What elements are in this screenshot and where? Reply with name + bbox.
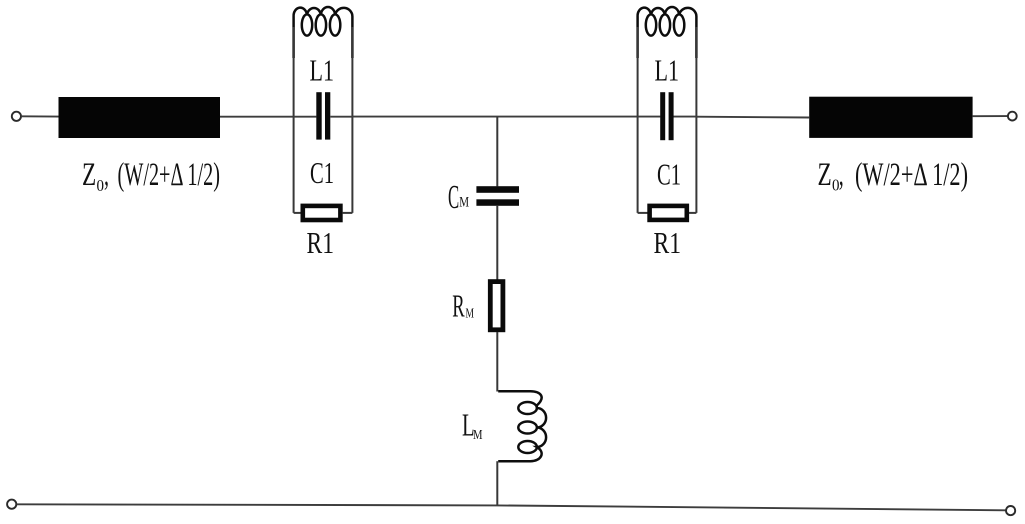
capacitor C1 (left): right plate — [325, 92, 330, 139]
svg-text:(W/2+Δ 1/2): (W/2+Δ 1/2) — [855, 157, 968, 193]
resistor RM (vertical) — [490, 282, 503, 330]
wire: right tank right vertical — [695, 27, 697, 213]
svg-text:C1: C1 — [310, 155, 334, 190]
terminal: bottom-right port — [1006, 506, 1015, 515]
terminal: top-left port — [12, 112, 21, 121]
wire: left tank to centre node to right tank — [352, 116, 637, 118]
svg-text:,: , — [839, 157, 844, 193]
svg-text:M: M — [459, 195, 469, 211]
resistor R1 (left) — [303, 206, 341, 220]
wire: out of right C1 right plate — [673, 116, 696, 118]
capacitor C1 (right): right plate — [669, 92, 674, 140]
svg-text:R1: R1 — [654, 225, 682, 260]
wire: right transmission line to top-right port — [973, 115, 1008, 117]
wire: out of C1 right plate — [330, 116, 352, 118]
inductor LM (vertical) coil — [498, 391, 546, 461]
wire: stub from R1 right-tank — [689, 212, 696, 214]
svg-text:0: 0 — [97, 176, 105, 195]
svg-text:,: , — [104, 157, 109, 193]
svg-text:M: M — [466, 307, 475, 322]
svg-text:L1: L1 — [655, 52, 680, 87]
svg-text:(W/2+Δ 1/2): (W/2+Δ 1/2) — [118, 157, 221, 193]
wire: stub to R1 left — [294, 212, 302, 214]
transmission line Z0 left (black microstrip section) — [59, 97, 221, 138]
wire: centre node down to CM top plate — [496, 117, 498, 187]
wire: into right C1 left plate — [638, 116, 661, 118]
capacitor C1 (left): left plate — [316, 92, 321, 139]
wire: bottom ground rail — [17, 504, 1006, 510]
wire: into C1 left plate — [294, 116, 317, 118]
inductor L1 (right) coil — [638, 7, 697, 58]
wire: left transmission line to left RLC tank — [220, 116, 294, 118]
wire: RM down to LM coil — [496, 332, 498, 392]
transmission line Z0 right (black microstrip section) — [809, 97, 972, 138]
svg-text:Z: Z — [82, 157, 96, 193]
inductor L1 (left) coil — [294, 7, 353, 58]
wire: LM coil down to bottom rail — [496, 461, 498, 505]
terminal: top-right port — [1008, 112, 1017, 121]
label: Z0, (W/2+delta l/2) left — [82, 157, 220, 195]
svg-text:L1: L1 — [310, 52, 335, 87]
capacitor C1 (right): left plate — [660, 92, 665, 140]
svg-text:R1: R1 — [307, 225, 335, 260]
wire: right tank left vertical — [637, 27, 639, 213]
wire: left tank right vertical — [351, 27, 353, 213]
wire: stub to R1 right-tank — [638, 212, 649, 214]
wire: right tank to right transmission line — [696, 116, 809, 119]
label: RM — [452, 288, 474, 324]
svg-text:C: C — [448, 179, 459, 216]
svg-text:Z: Z — [818, 157, 832, 193]
svg-text:R: R — [452, 288, 465, 324]
svg-text:C1: C1 — [657, 157, 681, 192]
capacitor CM: top plate — [476, 186, 519, 193]
wire: CM bottom plate down to RM — [496, 206, 498, 280]
label: LM — [462, 406, 483, 443]
label: CM — [448, 179, 469, 216]
terminal: bottom-left port — [7, 500, 16, 509]
resistor R1 (right) — [650, 206, 687, 220]
wire: stub from R1 right — [343, 212, 353, 214]
wire: left tank left vertical — [293, 27, 295, 213]
svg-text:M: M — [473, 428, 483, 443]
label: Z0, (W/2+delta l/2) right — [818, 157, 969, 195]
wire: top-left port to left transmission line — [21, 115, 59, 117]
capacitor CM: bottom plate — [476, 199, 519, 206]
